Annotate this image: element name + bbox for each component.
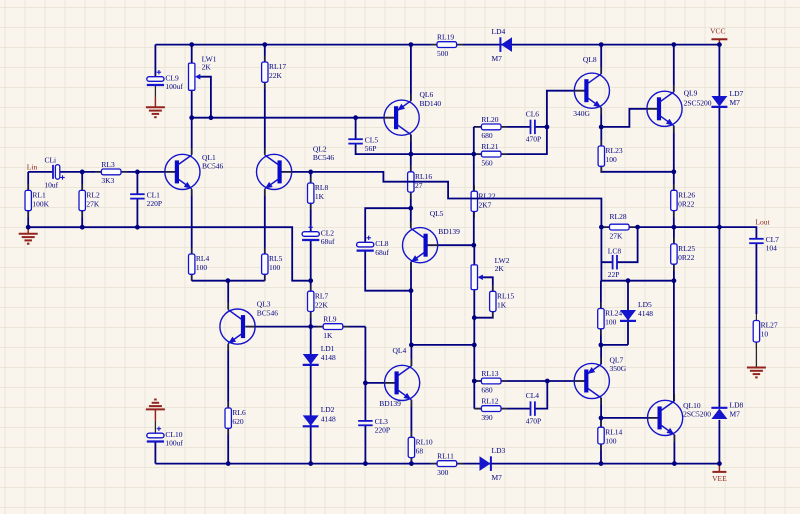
svg-text:QL5: QL5 (430, 209, 444, 218)
wire QL7 emitter (600, 345, 602, 364)
svg-text:22K: 22K (315, 300, 329, 309)
resistor RL8 (308, 177, 329, 210)
junction at (673.8,44.6) (671, 42, 676, 47)
junction at (601.2,44.6) (599, 42, 604, 47)
junction at (137.4,171.9) (135, 170, 140, 175)
transistor QL4 (379, 346, 420, 408)
junction at (474.3,344.9) (472, 343, 477, 348)
junction at (264.8,44.6) (262, 42, 267, 47)
svg-text:QL3: QL3 (257, 300, 271, 309)
transistor QL1 (164, 148, 223, 196)
wire QL8 base (547, 91, 586, 127)
junction at (601.4,227.1) (599, 225, 604, 230)
wire y345 link (411, 344, 474, 346)
svg-text:104: 104 (766, 244, 778, 253)
junction at (719.4,44.6) (717, 42, 722, 47)
junction at (210.9,117.7) (209, 115, 214, 120)
capacitor CL6 (526, 110, 541, 144)
svg-text:RL7: RL7 (315, 291, 329, 300)
transistor QL7 (574, 356, 627, 406)
svg-text:CL3: CL3 (375, 417, 389, 426)
wire RL14 column (600, 418, 602, 464)
svg-text:RL14: RL14 (605, 427, 622, 436)
junction at (673.9,227.1) (672, 225, 677, 230)
junction at (547.3,381.0) (545, 379, 550, 384)
svg-text:300: 300 (437, 468, 449, 477)
svg-text:500: 500 (437, 49, 449, 58)
junction at (82.2,227.2) (80, 225, 85, 230)
svg-text:560: 560 (481, 158, 493, 167)
capacitor CL1 (130, 190, 162, 208)
wire RL21 row (474, 127, 547, 154)
junction at (355.6,117.7) (353, 115, 358, 120)
wire CL7 to RL27 to ground (755, 243, 757, 314)
wire QL9 collector (673, 45, 675, 92)
svg-text:RL21: RL21 (481, 142, 498, 151)
wire RL9 row and CL3 column (311, 327, 366, 464)
svg-text:RL20: RL20 (481, 115, 498, 124)
wire RL8 CL2 RL7 LD1 LD2 column (310, 172, 312, 464)
wire RL15 bottom (474, 308, 493, 318)
junction at (410.8,208.2) (408, 206, 413, 211)
svg-text:2K: 2K (202, 63, 212, 72)
junction at (628.0,280.7) (626, 278, 631, 283)
resistor RL19 (431, 33, 464, 58)
junction at (28.2,227.2) (26, 225, 31, 230)
wire QL7 base from RL13 node (547, 380, 586, 382)
svg-text:470P: 470P (526, 135, 541, 144)
resistor RL15 (490, 285, 515, 318)
svg-text:CL6: CL6 (526, 110, 540, 119)
wire QL3 collector (227, 281, 229, 310)
capacitor CL10 (147, 427, 184, 448)
wire input Lin to CLi and RL1 (28, 172, 52, 227)
wire CL9 column (154, 45, 156, 77)
wire RL17 / QL2 collector column (264, 45, 266, 155)
diode LD3 (480, 446, 506, 482)
wire bottom rail (155, 463, 719, 465)
svg-text:RL11: RL11 (437, 452, 454, 461)
resistor RL14 (598, 421, 623, 451)
svg-text:RL10: RL10 (416, 438, 433, 447)
svg-text:2K: 2K (495, 264, 505, 273)
junction at (719.4,463.6) (717, 461, 722, 466)
svg-text:100uf: 100uf (165, 82, 183, 91)
svg-text:RL13: RL13 (481, 369, 498, 378)
resistor RL24 (598, 302, 623, 335)
svg-text:BC546: BC546 (202, 162, 224, 171)
wire RL20 CL6 row (474, 126, 547, 128)
power VEE (712, 464, 727, 483)
svg-text:100: 100 (605, 436, 617, 445)
wire LW2 wiper to RL15 (479, 277, 493, 291)
resistor RL10 (408, 431, 433, 464)
diode LD2 (303, 405, 336, 426)
junction at (474.3,381.0) (472, 379, 477, 384)
resistor RL28 (603, 224, 636, 230)
wire QL10 emitter (673, 435, 675, 464)
capacitor CL8 (357, 236, 390, 257)
svg-text:4148: 4148 (321, 353, 336, 362)
wire RL25 column (673, 227, 675, 281)
svg-text:10: 10 (761, 330, 769, 339)
svg-text:RL25: RL25 (678, 244, 695, 253)
svg-text:470P: 470P (526, 416, 541, 425)
transistor QL2 (257, 145, 335, 196)
svg-text:1K: 1K (315, 192, 325, 201)
junction at (310.7,463.6) (308, 461, 313, 466)
wire bias rail y118 (192, 117, 394, 119)
wire QL5 base (427, 244, 474, 246)
resistor RL16 (408, 165, 433, 198)
junction at (310.7,171.9) (308, 170, 313, 175)
junction at (227.9,280.7) (226, 278, 231, 283)
diode LD7 (711, 89, 743, 107)
svg-text:VCC: VCC (710, 26, 725, 35)
svg-text:M7: M7 (730, 410, 741, 419)
resistor RL3 (95, 160, 128, 185)
junction at (82.2,171.9) (80, 170, 85, 175)
junction at (310.7,326.6) (308, 324, 313, 329)
capacitor CL5 (348, 135, 378, 153)
svg-text:27K: 27K (86, 200, 100, 209)
junction at (673.9,280.7) (672, 278, 677, 283)
wire QL9 base path (601, 109, 659, 127)
wire QL8 emitter (600, 108, 602, 127)
svg-text:68: 68 (416, 447, 424, 456)
wire CL5 top (355, 118, 357, 140)
svg-text:680: 680 (481, 131, 493, 140)
junction at (674.4,463.6) (672, 461, 677, 466)
svg-text:LD7: LD7 (730, 89, 744, 98)
capacitor CL9 (147, 70, 184, 91)
svg-text:M7: M7 (730, 98, 741, 107)
ground input (19, 234, 38, 244)
wire QL8 collector (600, 45, 602, 74)
junction at (601.0,417.9) (599, 416, 604, 421)
capacitor LC8 (613, 255, 617, 270)
svg-text:680: 680 (481, 385, 493, 394)
svg-text:RL23: RL23 (606, 146, 623, 155)
capacitor CL4 (526, 391, 541, 425)
junction at (411.4,344.9) (409, 343, 414, 348)
junction at (473.8,154.1) (471, 152, 476, 157)
svg-text:RL4: RL4 (196, 254, 210, 263)
resistor RL27 (753, 314, 778, 349)
wire RL2 pins (81, 172, 83, 227)
svg-text:2SC5200: 2SC5200 (683, 410, 711, 419)
resistor RL11 (431, 452, 464, 477)
svg-text:RL16: RL16 (415, 172, 432, 181)
svg-text:22P: 22P (608, 270, 620, 279)
svg-text:220P: 220P (375, 426, 390, 435)
svg-text:56P: 56P (365, 144, 377, 153)
wire LW2 column (473, 245, 475, 345)
resistor RL13 (475, 369, 508, 394)
junction at (365.4,463.6) (363, 461, 368, 466)
transistor QL10 (647, 394, 711, 442)
wire RL12 CL4 row (474, 381, 547, 409)
ground CL9 (146, 107, 165, 117)
svg-text:340G: 340G (573, 109, 590, 118)
junction at (411.4,463.6) (409, 461, 414, 466)
junction at (310.7,280.7) (308, 278, 313, 283)
junction at (673.8,171.8) (671, 169, 676, 174)
wire LC8 taps (601, 227, 637, 262)
svg-text:QL4: QL4 (393, 346, 407, 355)
wire CL10 column (154, 442, 156, 464)
svg-text:RL8: RL8 (315, 183, 329, 192)
wire output rail (601, 227, 756, 239)
svg-text:M7: M7 (492, 54, 503, 63)
svg-text:1K: 1K (497, 301, 507, 310)
svg-text:RL1: RL1 (32, 191, 46, 200)
svg-text:LD1: LD1 (321, 344, 335, 353)
resistor RL26 (671, 184, 696, 217)
svg-text:2K7: 2K7 (479, 200, 492, 209)
wire node-A column RL20 RL21 RL22 (473, 127, 475, 245)
resistor RL20 (475, 115, 508, 140)
wire LD8 column (718, 227, 720, 464)
resistor RL6 (225, 402, 246, 435)
capacitor CL3 (358, 417, 390, 435)
wire QL1 collector (191, 118, 193, 155)
diode LD8 (711, 401, 743, 420)
svg-text:620: 620 (232, 417, 244, 426)
svg-text:350G: 350G (610, 364, 627, 373)
wire QL4 collector (410, 345, 412, 366)
junction at (411.0,290.7) (409, 288, 414, 293)
svg-text:BC546: BC546 (313, 153, 335, 162)
svg-text:4148: 4148 (321, 414, 336, 423)
junction at (601.2,126.9) (599, 125, 604, 130)
svg-text:RL2: RL2 (86, 191, 100, 200)
svg-text:Lin: Lin (27, 162, 38, 171)
svg-text:390: 390 (481, 413, 493, 422)
wire CL10 ground stem (154, 410, 156, 421)
svg-text:RL19: RL19 (437, 33, 454, 42)
potentiometer LW1 (189, 55, 217, 91)
svg-text:LD3: LD3 (492, 446, 506, 455)
svg-text:LD4: LD4 (492, 27, 506, 36)
potentiometer LW2 (471, 256, 510, 290)
junction at (410.9,154.1) (409, 152, 414, 157)
resistor RL5 (262, 248, 283, 281)
svg-text:RL3: RL3 (101, 160, 115, 169)
junction at (191.7,44.6) (189, 42, 194, 47)
svg-text:100K: 100K (32, 200, 49, 209)
svg-text:RL28: RL28 (610, 212, 627, 221)
junction at (637.6,227.1) (635, 225, 640, 230)
wire CL1 pins (136, 172, 138, 227)
junction at (365.4,382.9) (363, 381, 368, 386)
transistor QL6 (384, 90, 442, 142)
resistor RL12 (475, 397, 508, 422)
wire LD7 column (718, 45, 720, 228)
svg-text:CL1: CL1 (147, 190, 161, 199)
wire RL13 RL12 left column (473, 345, 475, 409)
resistor RL21 (475, 142, 508, 167)
diode LD5 (620, 300, 653, 321)
svg-text:27K: 27K (610, 231, 624, 240)
transistor QL5 (403, 209, 461, 269)
resistor RL25 (671, 237, 696, 270)
wire QL3 base (246, 326, 311, 328)
resistor RL1 (25, 184, 50, 217)
capacitor CLi (44, 156, 64, 190)
wire LW1 column (191, 45, 193, 118)
svg-text:M7: M7 (492, 473, 503, 482)
svg-text:68uf: 68uf (321, 237, 335, 246)
wire QL6 emitter (410, 45, 412, 101)
ground CL10 inverted (146, 400, 165, 410)
wire LW1 wiper (197, 77, 211, 118)
wire QL4 emitter to RL10 (410, 400, 412, 464)
junction at (137.4,227.2) (135, 225, 140, 230)
svg-text:RL12: RL12 (481, 397, 498, 406)
transistor QL9 (647, 85, 712, 133)
svg-text:100: 100 (269, 263, 281, 272)
svg-text:RL5: RL5 (269, 254, 283, 263)
svg-text:BD139: BD139 (438, 227, 460, 236)
svg-text:CL4: CL4 (526, 391, 540, 400)
svg-text:0R22: 0R22 (678, 253, 695, 262)
ground RL27 (747, 368, 766, 378)
svg-text:Lout: Lout (755, 217, 770, 226)
svg-text:CL7: CL7 (766, 235, 780, 244)
wire QL10 base (601, 417, 658, 419)
wire QL5 emitter column (410, 262, 412, 345)
wire CLi to RL3 to QL1 base (58, 171, 175, 173)
svg-text:RL27: RL27 (761, 321, 778, 330)
resistor RL7 (308, 285, 329, 318)
capacitor CL7 (749, 235, 779, 253)
wire CL5 bottom bar y154 (356, 144, 474, 155)
junction at (410.9,44.6) (409, 42, 414, 47)
wire QL10 collector column (673, 281, 675, 401)
transistor QL8 (573, 55, 609, 118)
svg-text:LC8: LC8 (608, 247, 622, 256)
svg-text:4148: 4148 (638, 309, 653, 318)
wire QL2 base (282, 171, 311, 173)
svg-text:RL24: RL24 (605, 309, 622, 318)
junction at (228.2,463.6) (226, 461, 231, 466)
power VCC (710, 26, 727, 44)
diode LD1 (303, 344, 336, 365)
svg-text:QL9: QL9 (684, 89, 698, 98)
svg-text:QL6: QL6 (420, 90, 434, 99)
svg-text:QL8: QL8 (583, 55, 597, 64)
svg-text:BC546: BC546 (257, 309, 279, 318)
wire top rail (155, 44, 719, 46)
svg-text:RL9: RL9 (323, 315, 337, 324)
svg-text:3K3: 3K3 (101, 176, 114, 185)
wire CL8 bottom (365, 251, 411, 291)
svg-text:68uf: 68uf (375, 248, 389, 257)
wire RL23 column (601, 127, 674, 172)
junction at (600.9,344.9) (599, 343, 604, 348)
svg-text:VEE: VEE (712, 474, 727, 483)
svg-text:1K: 1K (323, 331, 333, 340)
capacitor CL2 (302, 225, 335, 246)
svg-text:BD140: BD140 (420, 99, 442, 108)
junction at (546.9,126.9) (545, 125, 550, 130)
resistor RL17 (262, 56, 287, 89)
wire QL2 emitter to RL5 (264, 190, 266, 281)
svg-text:BD139: BD139 (379, 399, 401, 408)
wire feedback path QL2 base to RL28 (311, 172, 602, 227)
svg-text:22K: 22K (269, 71, 283, 80)
svg-text:100: 100 (605, 318, 617, 327)
wire feedback node column (601, 227, 674, 281)
junction at (474.3,317.7) (472, 315, 477, 320)
resistor RL9 (317, 315, 350, 340)
wire RL24 column (600, 281, 602, 345)
svg-text:0R22: 0R22 (678, 200, 695, 209)
junction at (191.7,117.7) (189, 115, 194, 120)
svg-text:RL17: RL17 (269, 62, 286, 71)
wire QL7 collector (600, 398, 602, 418)
resistor RL23 (598, 140, 623, 173)
svg-text:100: 100 (606, 155, 618, 164)
resistor RL4 (189, 248, 210, 281)
wire QL6 collector (410, 135, 412, 155)
svg-text:LD2: LD2 (321, 405, 335, 414)
svg-text:RL26: RL26 (678, 191, 695, 200)
wire CL8 top (365, 208, 411, 242)
wire ground rail to feedback shunt (28, 227, 311, 281)
wire QL1 emitter to RL4 (191, 190, 193, 281)
svg-text:220P: 220P (147, 199, 162, 208)
svg-text:CLi: CLi (44, 156, 56, 165)
wire QL4 base (365, 382, 396, 384)
svg-text:10uf: 10uf (44, 180, 58, 189)
wire CL9 ground stem (154, 97, 156, 107)
junction at (473.8,245.2) (471, 243, 476, 248)
wire LD5 column (601, 281, 628, 345)
svg-text:100uf: 100uf (165, 439, 183, 448)
wire QL3 emitter to RL6 (227, 344, 229, 463)
wire QL9 emitter to RL26 (673, 126, 675, 227)
junction at (719.4,227.1) (717, 225, 722, 230)
junction at (601.0,463.6) (599, 461, 604, 466)
svg-text:CL5: CL5 (365, 135, 379, 144)
resistor RL2 (79, 184, 100, 217)
svg-text:2SC5200: 2SC5200 (684, 99, 712, 108)
svg-text:LD5: LD5 (638, 300, 652, 309)
diode LD4 (492, 27, 513, 63)
wire RL13 row (474, 380, 547, 382)
svg-text:100: 100 (196, 263, 208, 272)
resistor RL22 (471, 185, 496, 218)
wire RL16 QL5-collector column (410, 154, 412, 228)
wire tail junction bar (192, 280, 265, 282)
transistor QL3 (220, 300, 278, 351)
svg-text:RL15: RL15 (497, 292, 514, 301)
svg-text:RL6: RL6 (232, 408, 246, 417)
svg-text:LD8: LD8 (730, 401, 744, 410)
